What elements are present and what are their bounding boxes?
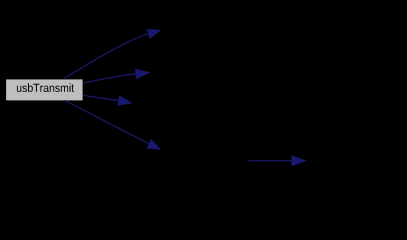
- edge 3 arrowhead: [117, 95, 133, 105]
- node usbTransmit (current function, grey box): [6, 79, 84, 101]
- call edge 1: usbTransmit -> top-right node (wire): [65, 29, 162, 78]
- node usbTransmit label text: [17, 83, 74, 92]
- edge 5: bottom callee -> its callee (horizontal wire): [248, 155, 306, 166]
- edge 2 arrowhead: [135, 69, 150, 79]
- edge 5 arrowhead: [292, 155, 307, 166]
- edge 4 arrowhead: [147, 139, 162, 150]
- edge 1 arrowhead: [147, 29, 162, 39]
- call edge 2: usbTransmit -> second node (wire): [83, 69, 150, 83]
- call edge 3: usbTransmit -> third node (wire): [83, 95, 133, 105]
- call edge 4: usbTransmit -> bottom node (wire): [65, 100, 162, 149]
